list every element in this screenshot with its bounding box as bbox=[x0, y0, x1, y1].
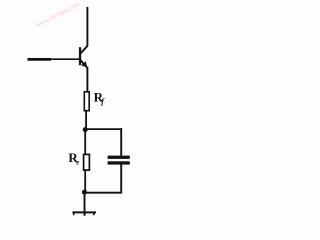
wire Rf to node A bbox=[85, 111, 87, 130]
watermark bbox=[35, 1, 81, 29]
node A bbox=[83, 127, 88, 132]
svg-text:e: e bbox=[76, 158, 79, 166]
wire capacitor to node B bbox=[84, 192, 122, 194]
wire base lead bbox=[28, 58, 80, 61]
label Rf bbox=[94, 89, 106, 106]
wire collector lead bbox=[86, 7, 88, 46]
wire node A to Re bbox=[84, 130, 86, 154]
wire emitter lead bbox=[86, 67, 88, 91]
label Re bbox=[68, 150, 79, 166]
wire Re to node B bbox=[84, 171, 86, 192]
wire node A to capacitor bbox=[85, 128, 122, 130]
ground bbox=[72, 212, 96, 215]
wire node B to ground bbox=[84, 192, 86, 216]
wire capacitor top lead bbox=[120, 128, 122, 156]
node B bbox=[82, 190, 87, 195]
transistor Q1 bbox=[79, 46, 88, 68]
capacitor C1 bbox=[108, 156, 130, 165]
resistor Rf bbox=[84, 92, 89, 111]
resistor Re bbox=[84, 154, 90, 170]
wire capacitor bottom lead bbox=[120, 164, 122, 193]
